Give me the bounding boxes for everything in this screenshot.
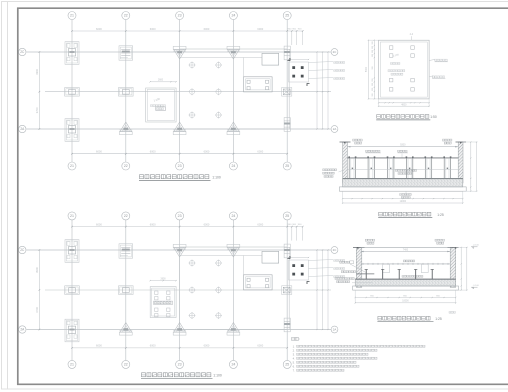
- section 1-1 under-slab leader: [400, 191, 411, 198]
- plan1 title: [139, 175, 221, 181]
- section 3-3 right wall: [448, 247, 459, 287]
- detail plan title: [376, 115, 437, 120]
- svg-text:1:25: 1:25: [435, 317, 442, 321]
- section 3-3 mid leader text: [402, 275, 423, 277]
- svg-text:2A: 2A: [333, 328, 337, 332]
- svg-text:6.: 6.: [293, 364, 295, 368]
- svg-text:6000: 6000: [96, 222, 102, 226]
- plan2 transformer pad: [262, 251, 279, 263]
- svg-text:22: 22: [124, 363, 128, 367]
- svg-text:6000: 6000: [257, 222, 263, 226]
- svg-text:6000: 6000: [150, 344, 156, 348]
- svg-text:1:100: 1:100: [212, 175, 221, 179]
- svg-text:1:50: 1:50: [430, 115, 437, 119]
- plan1 switchgear foundation: [244, 77, 273, 92]
- svg-text:21: 21: [70, 214, 74, 218]
- section 3-3 left wall: [353, 247, 365, 287]
- plan2 footing J1 axis1 row A(bottom): [65, 319, 79, 342]
- plan1 charging pile pit detail: [288, 58, 310, 86]
- section 1-1 cushion: [339, 187, 466, 191]
- plan2 footing J4 axis4 row C triangle: [227, 244, 240, 257]
- svg-text:300: 300: [372, 54, 374, 57]
- svg-text:5000: 5000: [366, 66, 368, 72]
- svg-text:6000: 6000: [257, 27, 263, 31]
- section 3-3 slab: [355, 279, 456, 286]
- svg-text:7.: 7.: [293, 368, 295, 372]
- plan2 footing J5 axis5 row A stack: [284, 318, 290, 332]
- svg-text:3.: 3.: [293, 352, 295, 356]
- plan2 pit leader notes: [309, 260, 345, 278]
- plan1 pit leader notes: [309, 62, 345, 80]
- svg-text:-0.100: -0.100: [473, 245, 480, 247]
- plan2 footing J2 axis2 row B: [119, 286, 134, 295]
- detail plan pile squares: [389, 46, 414, 91]
- svg-text:2C: 2C: [333, 248, 337, 252]
- section 1-1 left wall: [340, 142, 351, 183]
- svg-text:6000: 6000: [257, 344, 263, 348]
- plan1 pit room texts: [151, 96, 166, 110]
- svg-text:4.: 4.: [293, 356, 295, 360]
- svg-text:300: 300: [372, 50, 374, 53]
- plan2 footing J4 axis3 row C triangle: [173, 244, 186, 257]
- plan1 transformer pad: [262, 53, 279, 65]
- svg-text:9200: 9200: [400, 144, 406, 147]
- svg-text:4000: 4000: [401, 104, 407, 106]
- notes block: [292, 337, 425, 372]
- plan2 charger detail dimension: [150, 278, 177, 281]
- svg-text:300: 300: [372, 88, 374, 91]
- svg-text:6000: 6000: [96, 150, 102, 154]
- section 1-1 pedestal verticals: [348, 158, 452, 179]
- plan2 footing J5 axis5 row C stack: [284, 244, 290, 258]
- svg-text:23: 23: [178, 164, 182, 168]
- plan2 left axis bubbles: [19, 246, 26, 333]
- section 1-1 mid elevation text: [396, 169, 417, 174]
- plan2 right dimension lines: [316, 249, 328, 330]
- svg-text:2A: 2A: [333, 127, 337, 131]
- svg-text:-1.100: -1.100: [473, 285, 480, 287]
- plan1 footing J5 axis5 row A stack: [284, 118, 290, 132]
- svg-text:2C: 2C: [333, 50, 337, 54]
- svg-text:25: 25: [285, 363, 289, 367]
- svg-text:22: 22: [124, 14, 128, 18]
- svg-text:6000: 6000: [150, 150, 156, 154]
- plan1 footing J4 axis4 row A triangle: [227, 122, 240, 135]
- plan 1 group: [19, 12, 345, 181]
- plan2 top axis bubbles: [68, 212, 291, 220]
- svg-text:24: 24: [231, 164, 235, 168]
- detail plan group: [366, 33, 448, 120]
- plan1 footing J1 axis1 row A(bottom): [65, 119, 79, 142]
- section 3-3 right dimension chains: [456, 247, 468, 291]
- section 3-3 cushion: [353, 286, 459, 290]
- plan2 footing J6 axis5 row B: [282, 286, 292, 295]
- plan1 footing J1 axis1 row C(top): [65, 42, 79, 65]
- plan2 footing J4 axis4 row A triangle: [227, 323, 240, 336]
- section 1-1 inner top dimension: [347, 144, 458, 148]
- section 3-3 title: [377, 311, 455, 321]
- section 3-3 inner top dimension: [361, 248, 451, 252]
- svg-text:25: 25: [285, 214, 289, 218]
- plan1 footing J4 axis2 row A triangle: [119, 122, 132, 135]
- plan2 title: [141, 373, 222, 379]
- section 3-3 group: [335, 239, 480, 322]
- left binding margin line: [6, 2, 8, 389]
- svg-text:6000: 6000: [96, 344, 102, 348]
- svg-text:7400: 7400: [403, 248, 409, 251]
- svg-text:2600: 2600: [158, 80, 164, 82]
- section 3-3 top leader texts: [365, 239, 444, 244]
- svg-text:2C: 2C: [20, 248, 25, 252]
- svg-text:6000: 6000: [96, 27, 102, 31]
- plan1 survey points: [189, 62, 223, 119]
- section 1-1 group: [323, 139, 478, 218]
- svg-text:23: 23: [178, 363, 182, 367]
- svg-text:6000: 6000: [204, 222, 210, 226]
- plan2 charger detail label: [154, 301, 173, 304]
- section 1-1 right wall: [456, 142, 467, 183]
- plan1 axis grid verticals: [72, 20, 287, 163]
- plan1 footing J4 axis3 row A triangle: [173, 122, 186, 135]
- svg-text:23: 23: [178, 14, 182, 18]
- plan1 footing J6 axis5 row B: [282, 88, 292, 97]
- plan2 footing J3 axis2 row C(top): [119, 244, 133, 258]
- svg-text:1:25: 1:25: [437, 213, 444, 217]
- notes heading: [292, 337, 299, 340]
- plan2 bottom dimension line: [71, 344, 288, 349]
- section 1-1 pedestal top beam: [347, 156, 458, 169]
- section 1-1 bottom dimension chains: [342, 191, 463, 204]
- section 3-3 pile stub right: [421, 264, 428, 272]
- section 1-1 inner leader notes: [366, 150, 408, 158]
- section 3-3 left leader notes: [335, 261, 374, 283]
- svg-text:3700: 3700: [35, 107, 39, 113]
- svg-text:21: 21: [70, 164, 74, 168]
- plan2 footing J1 axis1 row C(top): [65, 240, 79, 263]
- plan1 top axis bubbles: [68, 12, 291, 20]
- plan2 right axis bubbles: [331, 247, 338, 333]
- detail plan bottom dimension chain: [378, 99, 430, 107]
- svg-text:6000: 6000: [204, 150, 210, 154]
- plan1 top dimension line: [71, 27, 303, 45]
- plan2 axis grid horizontals: [27, 250, 332, 330]
- svg-text:3700: 3700: [35, 306, 39, 312]
- plan1 footing J4 axis3 row C triangle: [173, 46, 186, 59]
- svg-text:6000: 6000: [257, 150, 263, 154]
- section 3-3 anchor bolts: [364, 270, 434, 282]
- plan2 charging pile pit detail: [288, 256, 310, 284]
- svg-text:22: 22: [124, 214, 128, 218]
- plan2 corridor line: [180, 256, 262, 275]
- plan1 footing J2 axis2 row B: [119, 88, 134, 97]
- svg-text:300: 300: [372, 83, 374, 86]
- section 1-1 slab: [343, 178, 463, 187]
- detail plan right leaders: [429, 59, 448, 78]
- plan2 footing J4 axis2 row A triangle: [119, 323, 132, 336]
- section 3-3 bottom dimension chains: [355, 290, 457, 304]
- svg-text:24: 24: [231, 14, 235, 18]
- plan1 equipment slab outline: [180, 49, 290, 129]
- plan2 switchgear foundation: [244, 275, 273, 290]
- plan2 axis grid verticals: [72, 220, 287, 361]
- plan1 bottom dimension line: [71, 150, 288, 155]
- plan2 survey points: [189, 260, 223, 320]
- plan1 pit room detail: [146, 88, 176, 122]
- svg-text:2C: 2C: [20, 50, 25, 54]
- plan1 axis grid horizontals: [27, 52, 332, 129]
- detail plan top label: [410, 33, 414, 40]
- svg-text:3900: 3900: [35, 68, 39, 74]
- svg-text::: :: [299, 337, 300, 341]
- plan1 footing J5 axis5 row C stack: [284, 46, 290, 60]
- plan2 footing J4 axis3 row A triangle: [173, 323, 186, 336]
- section 1-1 title: [378, 212, 444, 217]
- svg-text:300: 300: [372, 46, 374, 49]
- svg-text:3900: 3900: [35, 267, 39, 273]
- plan1 left axis bubbles: [19, 48, 26, 132]
- plan1 corridor line: [180, 58, 262, 77]
- svg-text:6000: 6000: [150, 27, 156, 31]
- svg-text:300: 300: [372, 93, 374, 96]
- plan1 pit room dimension: [150, 80, 177, 83]
- section 1-1 mid tie line: [347, 168, 458, 170]
- plan1 right dimension lines: [316, 51, 328, 129]
- svg-text:25: 25: [285, 164, 289, 168]
- section 3-3 ground line: [361, 246, 451, 248]
- detail plan left dimension chain: [366, 40, 379, 100]
- plan2 bottom axis bubbles: [68, 360, 291, 368]
- section 3-3 rebar mesh line: [361, 260, 451, 265]
- plan2 charger foundation detail: [150, 287, 176, 318]
- svg-text:22: 22: [124, 164, 128, 168]
- svg-text:24: 24: [231, 214, 235, 218]
- svg-text:21: 21: [70, 14, 74, 18]
- detail plan outer foundation: [379, 40, 430, 99]
- plan1 left dimension line: [35, 51, 40, 130]
- svg-text:10000: 10000: [402, 301, 409, 303]
- svg-text:23: 23: [178, 214, 182, 218]
- section 1-1 right dimension chain: [463, 141, 478, 191]
- plan1 right axis bubbles: [331, 49, 338, 133]
- plan2 equipment slab outline: [180, 247, 290, 330]
- svg-text:12000: 12000: [400, 201, 407, 203]
- plan1 footing J4 axis4 row C triangle: [227, 46, 240, 59]
- section 3-3 pile stub left: [383, 264, 390, 272]
- plan 2 group: [19, 212, 345, 379]
- svg-text:6000: 6000: [204, 27, 210, 31]
- section 1-1 left leader notes: [323, 169, 343, 178]
- svg-text:300: 300: [372, 66, 374, 69]
- plan2 left dimension line: [35, 249, 40, 330]
- detail plan inner texts: [388, 53, 405, 75]
- svg-text:6000: 6000: [204, 344, 210, 348]
- svg-text:24: 24: [231, 363, 235, 367]
- svg-text:6000: 6000: [150, 222, 156, 226]
- svg-text:1:100: 1:100: [213, 373, 222, 377]
- plan2 top dimension line: [71, 222, 303, 240]
- plan1 footing J2 axis1 row B: [65, 88, 80, 97]
- svg-text:1.: 1.: [293, 344, 295, 348]
- svg-text:300: 300: [372, 79, 374, 82]
- svg-text:2.: 2.: [293, 348, 295, 352]
- svg-text:300: 300: [372, 41, 374, 44]
- svg-text:25: 25: [285, 14, 289, 18]
- section 1-1 top leader texts: [353, 139, 452, 144]
- plan2 footing J2 axis1 row B: [65, 286, 80, 295]
- plan1 footing J3 axis2 row C(top): [119, 46, 133, 60]
- svg-text:21: 21: [70, 363, 74, 367]
- plan1 bottom axis bubbles: [68, 162, 291, 170]
- svg-text:5.: 5.: [293, 360, 295, 364]
- section 3-3 level marks: [471, 245, 480, 289]
- svg-text:2600: 2600: [160, 278, 166, 280]
